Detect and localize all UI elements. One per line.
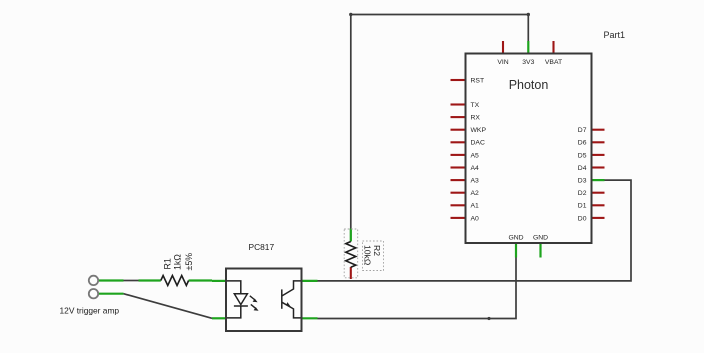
svg-text:Photon: Photon [509, 78, 549, 92]
svg-text:RST: RST [471, 77, 485, 84]
svg-text:Part1: Part1 [604, 30, 626, 40]
svg-text:D2: D2 [578, 190, 587, 197]
svg-text:VBAT: VBAT [545, 59, 562, 66]
svg-text:±5%: ±5% [184, 253, 194, 271]
svg-text:R2: R2 [372, 245, 382, 256]
svg-text:A2: A2 [471, 190, 480, 197]
svg-text:WKP: WKP [471, 127, 487, 134]
svg-text:A4: A4 [471, 165, 480, 172]
svg-text:1kΩ: 1kΩ [173, 254, 183, 270]
svg-text:GND: GND [508, 235, 523, 242]
svg-text:A5: A5 [471, 152, 480, 159]
svg-text:D6: D6 [578, 140, 587, 147]
svg-text:GND: GND [533, 235, 548, 242]
svg-text:D5: D5 [578, 152, 587, 159]
svg-text:D1: D1 [578, 203, 587, 210]
svg-text:RX: RX [471, 115, 481, 122]
svg-text:D3: D3 [578, 178, 587, 185]
svg-text:A3: A3 [471, 178, 480, 185]
svg-text:D7: D7 [578, 127, 587, 134]
svg-text:3V3: 3V3 [522, 59, 534, 66]
svg-text:10kΩ: 10kΩ [363, 245, 373, 266]
svg-text:D4: D4 [578, 165, 587, 172]
svg-text:VIN: VIN [497, 59, 508, 66]
svg-text:PC817: PC817 [249, 242, 275, 252]
svg-text:TX: TX [471, 102, 480, 109]
svg-text:D0: D0 [578, 215, 587, 222]
svg-text:A1: A1 [471, 203, 480, 210]
svg-text:DAC: DAC [471, 140, 485, 147]
svg-text:12V trigger amp: 12V trigger amp [60, 305, 120, 315]
svg-text:A0: A0 [471, 215, 480, 222]
svg-text:R1: R1 [163, 258, 173, 269]
